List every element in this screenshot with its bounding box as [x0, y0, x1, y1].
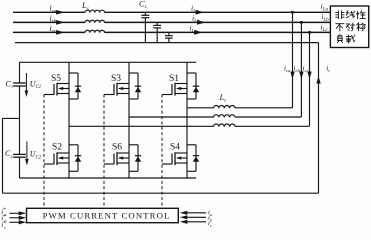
svg-text:S1: S1	[169, 74, 179, 84]
svg-text:S2: S2	[52, 143, 62, 153]
svg-text:S4: S4	[170, 143, 180, 153]
svg-text:S6: S6	[112, 143, 122, 153]
svg-text:PWM CURRENT CONTROL: PWM CURRENT CONTROL	[43, 211, 171, 221]
svg-text:S3: S3	[111, 74, 121, 84]
svg-text:S5: S5	[51, 74, 61, 84]
svg-text:i*c: i*c	[1, 220, 6, 230]
